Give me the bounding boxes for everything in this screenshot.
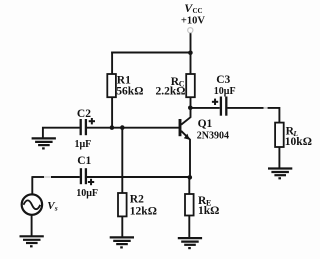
resistor RE [185, 194, 194, 216]
capacitor C3 [220, 97, 222, 116]
svg-text:s: s [54, 204, 58, 213]
svg-text:56kΩ: 56kΩ [116, 86, 143, 98]
node R2-base junction [120, 125, 125, 130]
wire base from C2 [87, 127, 179, 129]
wire emitter to RE [188, 177, 190, 194]
svg-text:10μF: 10μF [76, 188, 98, 199]
svg-text:1kΩ: 1kΩ [198, 205, 219, 217]
wire Vs top lead [31, 176, 33, 194]
ground RL [268, 169, 292, 179]
wire RC bottom lead [190, 97, 192, 108]
wire R1 top lead [111, 52, 113, 74]
svg-text:Q1: Q1 [198, 118, 213, 130]
svg-text:1μF: 1μF [75, 139, 92, 150]
svg-text:2.2kΩ: 2.2kΩ [156, 86, 186, 98]
power terminal VCC [188, 28, 193, 33]
capacitor C2 [80, 119, 82, 135]
resistor RL [275, 123, 284, 147]
svg-text:12kΩ: 12kΩ [130, 205, 157, 217]
svg-text:C3: C3 [216, 74, 230, 86]
transistor Q1 collector lead [181, 108, 190, 125]
plus sign C2 [89, 118, 95, 124]
node R1-base junction [110, 125, 115, 130]
svg-text:C2: C2 [77, 108, 91, 120]
ground Vs [20, 236, 44, 246]
svg-text:10kΩ: 10kΩ [285, 136, 312, 148]
ground C2 [32, 138, 56, 148]
ground R2 [110, 237, 134, 247]
wire C1 to emitter node [87, 176, 190, 178]
wire R2 bottom lead [121, 216, 123, 237]
svg-text:C1: C1 [77, 155, 91, 167]
wire Vs bottom lead [31, 215, 33, 237]
transistor Q1 emitter lead [181, 131, 190, 178]
node emitter junction [188, 175, 193, 180]
wire R1 bottom lead [111, 97, 113, 128]
wire C3 to output corner [227, 107, 263, 109]
node top junction [188, 51, 193, 56]
wire top horizontal branch to R1 [111, 52, 190, 54]
resistor RC [186, 74, 195, 97]
wire C2 to ground corner [43, 128, 80, 139]
source Vs [22, 194, 42, 214]
ground RE [178, 238, 202, 248]
svg-text:+10V: +10V [181, 15, 205, 26]
wire VCC vertical to RC top [190, 33, 192, 74]
svg-text:10μF: 10μF [214, 86, 236, 97]
wire Vs to C1 [32, 176, 44, 178]
resistor R1 [107, 74, 116, 97]
wire RL bottom lead [278, 147, 280, 169]
wire R2 top lead [121, 128, 123, 193]
plus sign C3 [212, 99, 218, 105]
wire RE bottom lead [188, 216, 190, 238]
svg-text:R2: R2 [130, 194, 144, 206]
transistor Q1 emitter arrow [184, 134, 190, 140]
wire collector to C3 [191, 107, 220, 109]
svg-text:CC: CC [193, 7, 203, 15]
plus sign C1 [88, 179, 94, 185]
transistor Q1 base bar [179, 119, 182, 136]
capacitor C1 [80, 168, 82, 184]
node collector junction [188, 106, 193, 111]
resistor R2 [118, 193, 127, 216]
svg-text:2N3904: 2N3904 [197, 131, 229, 142]
